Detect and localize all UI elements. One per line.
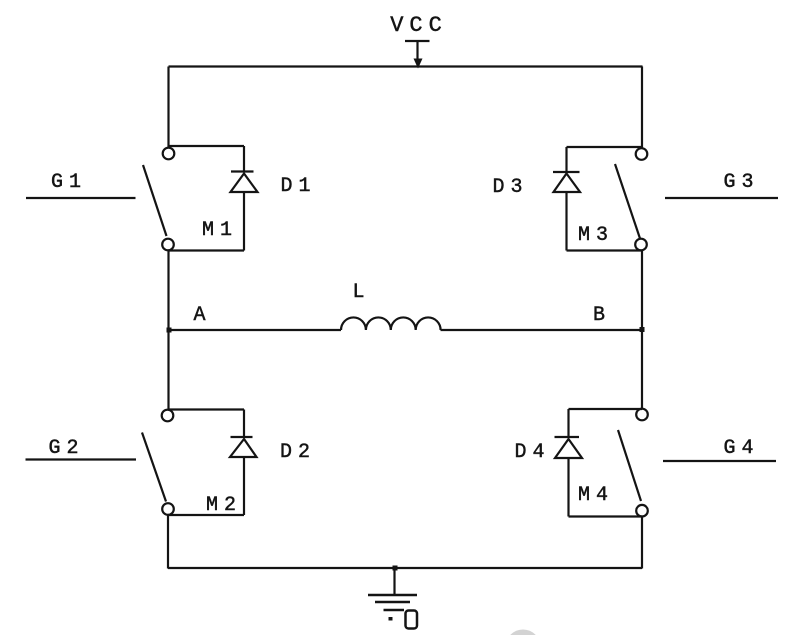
wire ground stub [393,568,395,595]
wire M3 cell top [567,146,642,148]
svg-text:L: L [352,281,370,304]
switch M4 bottom terminal [636,505,648,517]
wire inductor to node B [441,329,643,331]
wire M3 cell bottom [567,249,642,251]
wire D2 lower segment [243,457,245,515]
svg-text:D3: D3 [492,176,528,199]
wire D1 upper segment [243,146,245,172]
wire D2 upper segment [243,410,245,438]
svg-text:B: B [593,304,611,327]
wire G4 gate lead [663,460,776,462]
wire bottom rail [168,567,642,569]
svg-text:M2: M2 [206,494,242,517]
wire M1 cell top [169,145,245,147]
svg-text:G1: G1 [51,171,87,194]
inductor L [341,317,441,330]
svg-text:G2: G2 [48,437,84,460]
diode D4 [555,437,583,458]
wire right rail upper stub [641,67,643,150]
wire M1 cell bottom [168,249,244,251]
wire D1 lower segment [243,192,245,251]
wire right rail B upper [641,250,643,330]
wire top rail VCC [169,65,643,67]
wire G1 gate lead [26,197,136,199]
switch M1 top terminal [163,148,175,160]
wire left rail A lower [167,330,169,412]
wire left rail bottom stub [167,515,169,569]
label 0 net [389,611,418,629]
switch M1 blade [143,165,167,236]
wire M4 cell bottom [569,515,643,517]
wire G3 gate lead [665,197,778,199]
svg-text:D1: D1 [280,175,316,198]
switch M3 bottom terminal [635,239,647,251]
switch M4 blade [618,430,641,501]
wire D3 lower segment [565,192,567,251]
svg-text:M1: M1 [202,219,238,242]
switch M3 blade [615,164,640,239]
switch M2 bottom terminal [162,503,174,515]
switch M3 top terminal [636,148,648,160]
switch M1 bottom terminal [162,239,174,251]
wire left rail A upper [167,250,169,330]
wire G2 gate lead [26,458,137,460]
svg-text:G4: G4 [723,437,759,460]
svg-text:VCC: VCC [390,13,448,38]
wire M4 cell top [569,408,643,410]
wire node A to inductor [169,329,342,331]
ground junction dot [393,566,398,571]
node A junction [167,328,172,333]
svg-text:A: A [193,304,211,327]
diode D1 [231,172,258,193]
switch M2 top terminal [162,410,174,422]
wire D4 lower segment [567,458,569,517]
watermark arc [509,633,537,635]
VCC power symbol [405,41,430,69]
switch M2 blade [142,433,166,502]
wire right rail B lower [641,330,643,412]
wire M2 cell top [168,408,245,410]
svg-text:D2: D2 [280,441,316,464]
svg-text:D4: D4 [514,441,550,464]
switch M4 top terminal [636,409,648,421]
diode D2 [230,437,257,457]
svg-text:G3: G3 [723,171,759,194]
node B junction [640,327,645,332]
diode D3 [553,172,580,192]
wire D3 upper segment [565,147,567,172]
ground symbol [368,595,417,610]
wire D4 upper segment [567,409,569,437]
wire left rail upper stub [167,67,169,150]
svg-text:M4: M4 [578,484,614,507]
svg-text:M3: M3 [578,224,614,247]
wire M2 cell bottom [168,514,244,516]
wire right rail bottom stub [641,517,643,569]
